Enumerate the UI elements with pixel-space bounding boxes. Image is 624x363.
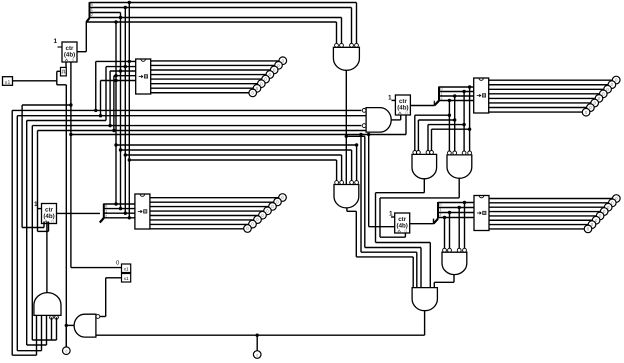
- output pins P2 group: [582, 76, 620, 116]
- wire: gate A output to gate E and counter C4 enable: [423, 178, 425, 192]
- svg-text:x1: x1: [124, 276, 129, 281]
- svg-text:1: 1: [34, 201, 38, 208]
- wire: tap x464.1 down to gate B: [463, 92, 465, 153]
- wire: gate A feed y124.6: [428, 124, 464, 126]
- wire: L4 line to counter C2 reset: [38, 230, 49, 232]
- wire: L4 y130.5: [38, 130, 367, 132]
- wire: counter C1 output to splitter S1: [77, 51, 86, 53]
- wire: S4 branch y217.5: [438, 217, 474, 219]
- wire: L1 y110.4: [12, 109, 361, 111]
- wire: constant 1 to counter C3: [392, 99, 396, 101]
- AND gate G_left facing left: [74, 314, 96, 337]
- wires: D2 outputs to pins: [489, 79, 613, 81]
- wire: S2 branch y91.5: [439, 91, 474, 93]
- wire: gate E feed from L5 tap A: [360, 135, 362, 253]
- wire: constant 1 to counter C2: [37, 208, 42, 210]
- wires: band into gate C bubbles: [356, 145, 358, 183]
- svg-text:x1: x1: [124, 267, 129, 272]
- wire: G2 output to counter C3 clock: [391, 119, 401, 121]
- counter C4: [395, 213, 410, 234]
- input pin box Pb: [122, 274, 131, 283]
- wire: counter C4 output to splitter S4: [410, 223, 434, 225]
- wire: gate D output to gate E: [453, 275, 455, 283]
- wire: S1 branch b2 (y7.5): [90, 7, 352, 9]
- wire: L2 y115.7: [17, 115, 366, 117]
- svg-text:1: 1: [54, 38, 58, 45]
- wire: S3 branch y217.8: [104, 217, 135, 219]
- output pin probe left: [65, 325, 67, 346]
- splitter S2: [438, 87, 440, 101]
- wire: S2 branch y100.5: [439, 100, 474, 102]
- wire: vertical tap x=129.3: [128, 3, 130, 62]
- wire: band line y155: [125, 154, 341, 156]
- svg-text:x1: x1: [5, 80, 11, 86]
- wire: D1 input B y66.6: [106, 66, 136, 68]
- AND gate D: [442, 252, 467, 274]
- wire: L5 y134.5 reset net: [71, 134, 406, 136]
- clock CLK1: [61, 67, 67, 76]
- AND gate A: [412, 154, 437, 178]
- wire: F bubble5 stub: [56, 317, 58, 340]
- wire: net y22 from S1 elbow: [86, 21, 336, 23]
- wire: band line y145: [116, 144, 357, 146]
- wire: U loop to F input2: [41, 315, 43, 350]
- wire: D1 input D y75.7: [114, 75, 136, 77]
- wire: line y105 (staircase): [22, 104, 71, 106]
- wire: clock net vertical x66.3: [65, 85, 67, 347]
- wire: gate C middle input from G_top net: [345, 136, 347, 184]
- wire: tap x=125.3 lower segment: [124, 67, 126, 214]
- decoder D3: [135, 194, 150, 229]
- wire: counter C3 output to splitter S2: [410, 105, 434, 107]
- wire: S1 branch b0 (y17.5): [90, 17, 342, 19]
- wire: S4 branch y212.5: [438, 212, 474, 214]
- wire: L3 y125.6: [32, 125, 361, 127]
- wire: gate A feed y115.2: [415, 114, 450, 116]
- wire: S3 branch y213.2: [104, 212, 135, 214]
- decoder D2: [474, 78, 489, 113]
- splitter S1: [89, 2, 91, 18]
- wire: x70.9 vertical to pin box: [70, 62, 72, 268]
- splitter S4: [437, 202, 439, 219]
- svg-text:1: 1: [388, 95, 392, 102]
- wire: gate B output to counter C4 clock: [458, 179, 460, 198]
- decoder D4: [474, 196, 489, 231]
- wire: gate A feed y129.2: [432, 128, 470, 130]
- wire: vertical tap x=125.3: [124, 8, 126, 67]
- wires: D4 outputs to pins: [489, 198, 613, 200]
- wire: constant 1 to counter C4: [391, 216, 395, 218]
- AND gate E: [412, 288, 437, 311]
- wire: S3 branch y204: [104, 203, 135, 205]
- wire: L3a y120.5: [27, 120, 106, 122]
- counter C2: [42, 204, 57, 225]
- wire: x1 output wire: [13, 80, 57, 82]
- wire: tap x454.7 down to gate B: [454, 96, 456, 152]
- wire: S3 branch y208.6: [104, 208, 135, 210]
- splitter S3: [103, 204, 105, 219]
- wire: tap x=120.5 lower segment: [120, 71, 122, 209]
- wire: counter C2 output to splitter S3: [57, 212, 101, 214]
- wire: tap x=116 lower segment: [115, 81, 117, 205]
- wire: U loop to F input3: [46, 315, 48, 345]
- wire: D1 input E y80.5: [101, 80, 136, 82]
- AND gate G_top: [333, 47, 359, 70]
- wire: S2 branch y96: [439, 95, 474, 97]
- wire: band line y160: [129, 159, 336, 161]
- wire: band line y150: [121, 149, 352, 151]
- AND gate C: [334, 185, 359, 208]
- wire: tap x469.6 down to gate B: [469, 87, 471, 152]
- input pin x1: [3, 77, 13, 86]
- wire: gate C output to gate E: [346, 208, 348, 211]
- wire: pin box Pb to gate G_left bubble: [106, 277, 122, 279]
- wire: tap x449.4 down to gate B: [448, 101, 450, 153]
- output pin probe right: [256, 335, 258, 351]
- wire: gate A feed y120: [418, 119, 454, 121]
- wires: top bundle into G_top: [336, 22, 338, 43]
- wire: vertical tap x=120.5: [120, 13, 122, 72]
- wire: S1 branch b1 (y12.5) corner down: [90, 12, 121, 14]
- wire: gate E feed from G_top net: [364, 136, 366, 247]
- output pins P4 group: [584, 195, 620, 233]
- output pins P3 group: [244, 194, 287, 233]
- wire: S4 branch y202.5: [438, 202, 474, 204]
- wire: U loop to F input1: [36, 315, 38, 355]
- wire: D1 input C y71: [110, 70, 136, 72]
- wire: S1 branch b3 (y2.5): [90, 2, 357, 4]
- wire: counter C1 clock stub: [65, 62, 67, 67]
- wire: S2 branch y87: [439, 86, 474, 88]
- wires: D1 outputs to pins: [151, 60, 279, 62]
- output pins P1 group: [249, 57, 287, 97]
- wire: S4 branch y207.5: [438, 207, 474, 209]
- counter C1: [62, 42, 77, 63]
- wires: D3 outputs to pins: [150, 197, 279, 199]
- wire: tap x=129.3 lower segment: [128, 61, 130, 217]
- AND gate B: [447, 155, 472, 178]
- AND gate F facing up: [34, 293, 61, 316]
- wire: gate E output long bottom line: [424, 311, 426, 336]
- decoder D1: [136, 59, 151, 94]
- AND gate G2: [366, 108, 391, 133]
- wire: G_left output to clock net: [66, 324, 74, 326]
- wire: counter C4 enable from L5 tap B: [368, 135, 370, 227]
- wire: clock to x1 routing: [57, 70, 61, 72]
- wire: y105 line to counter C2 clock: [22, 227, 44, 229]
- wire: counter C3 reset from L5: [405, 115, 407, 135]
- wire: constant 1 to counter C1: [58, 46, 63, 48]
- wire: D1 input A y61.4: [96, 60, 136, 62]
- wires: S4 taps down to gate D: [464, 203, 466, 249]
- wire: U loop to F bubble4: [51, 317, 53, 340]
- wire: G_top output: [345, 70, 347, 136]
- wire: vertical tap x=116: [115, 22, 117, 81]
- counter C3: [395, 95, 410, 116]
- wire: gate F output up to counter C2: [46, 222, 48, 293]
